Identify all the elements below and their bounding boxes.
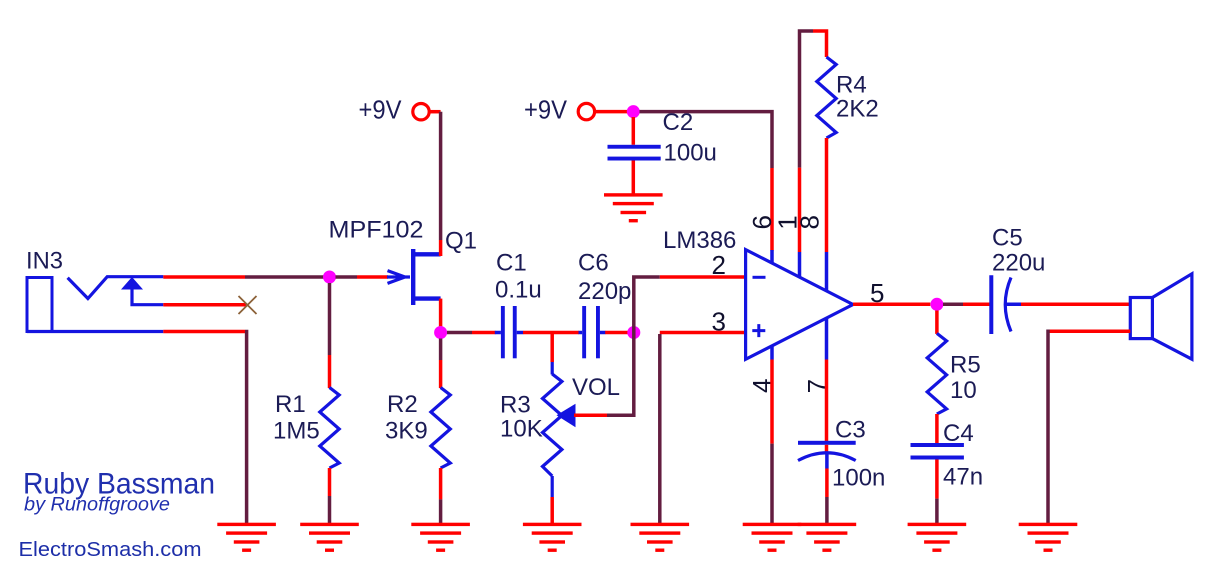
capacitor C5 curved plate xyxy=(1005,278,1011,332)
svg-text:R4: R4 xyxy=(836,71,867,98)
wire C1 in dark xyxy=(447,331,472,335)
wire C4 bottom red xyxy=(935,460,939,499)
svg-text:R1: R1 xyxy=(275,391,306,418)
potentiometer R3 body xyxy=(543,374,562,476)
wire pin4 red xyxy=(770,360,774,444)
svg-text:R2: R2 xyxy=(387,391,418,418)
wire R3 tap red xyxy=(550,333,554,363)
node junction dot B xyxy=(434,326,447,339)
svg-text:C4: C4 xyxy=(943,420,974,447)
jack sleeve lead xyxy=(27,330,163,333)
wire pin6 red xyxy=(770,168,774,251)
wire 9v1 stub red xyxy=(429,110,441,114)
svg-text:C6: C6 xyxy=(578,250,609,277)
pin stub 7 xyxy=(825,318,829,359)
pin stub 8 xyxy=(825,252,829,291)
speaker LS1 body xyxy=(1130,298,1152,339)
wire C2 top red xyxy=(632,117,636,145)
ground C2 xyxy=(604,193,663,222)
wire C1-C6 red xyxy=(523,331,579,335)
svg-text:C1: C1 xyxy=(496,250,527,277)
svg-text:100u: 100u xyxy=(664,140,717,167)
capacitor C1 xyxy=(495,306,523,358)
wire R3 bottom red xyxy=(550,497,554,525)
wire C2 bottom red xyxy=(632,161,636,196)
resistor R4 xyxy=(817,57,836,138)
jack switch arrow xyxy=(121,277,143,290)
speaker LS1 horn xyxy=(1152,274,1192,359)
wire tip dark xyxy=(245,275,324,279)
capacitor C3 blue lead xyxy=(825,452,829,469)
op-amp plus sign xyxy=(752,324,765,337)
ground pin3 xyxy=(631,523,690,552)
wire speaker return dark xyxy=(1048,331,1050,524)
capacitor C2 xyxy=(608,145,661,161)
svg-text:220p: 220p xyxy=(578,278,631,305)
node junction dot D xyxy=(627,105,640,118)
wire output red to C5 xyxy=(963,303,991,307)
wire gate dark xyxy=(336,275,358,279)
wire tip red xyxy=(163,275,245,279)
svg-text:VOL: VOL xyxy=(572,374,620,401)
ground speaker xyxy=(1019,523,1078,552)
svg-text:MPF102: MPF102 xyxy=(329,217,424,244)
wire pin1 red xyxy=(798,168,802,252)
svg-text:10: 10 xyxy=(950,377,977,404)
op-amp minus sign xyxy=(753,276,766,279)
wire C1 in red xyxy=(472,331,496,335)
wire R5-C4 red xyxy=(935,414,939,443)
svg-text:1M5: 1M5 xyxy=(273,418,320,445)
resistor R1 xyxy=(320,388,339,469)
svg-text:C2: C2 xyxy=(663,109,694,136)
svg-text:3: 3 xyxy=(712,307,726,337)
potentiometer R3 bottom lead xyxy=(551,476,554,497)
wire R2 dark xyxy=(439,339,443,361)
wire wiper dark xyxy=(607,333,634,416)
svg-text:100n: 100n xyxy=(832,464,885,491)
wire 9v2 stub red xyxy=(594,110,628,114)
svg-text:C5: C5 xyxy=(992,224,1023,251)
resistor R5 xyxy=(927,333,946,414)
wire R4 bottom red pin8 xyxy=(825,138,829,252)
svg-text:10K: 10K xyxy=(500,416,543,443)
capacitor C3 top plate xyxy=(798,441,856,445)
wire C6 out red xyxy=(605,331,627,335)
svg-text:C3: C3 xyxy=(835,417,866,444)
wire C4 bottom dark xyxy=(935,499,939,525)
wire R5 top red xyxy=(935,311,939,334)
wire to pin2 dark xyxy=(634,277,660,333)
wire pin7 red xyxy=(825,360,829,444)
capacitor C3 red gap xyxy=(825,445,829,452)
svg-text:IN3: IN3 xyxy=(26,248,63,275)
wire pin2 red xyxy=(660,275,746,279)
wire C3 dark xyxy=(825,497,829,525)
pin stub 6 xyxy=(770,250,774,264)
wire R2 red xyxy=(439,360,443,388)
wire C3 red xyxy=(825,469,829,498)
svg-text:47n: 47n xyxy=(943,463,983,490)
potentiometer R3 wiper arrow xyxy=(557,404,576,428)
no-connect X xyxy=(239,296,257,314)
capacitor C3 curved plate xyxy=(798,453,856,461)
capacitor C4 xyxy=(911,443,964,460)
wire ring red xyxy=(163,303,246,307)
svg-text:3K9: 3K9 xyxy=(385,418,428,445)
transistor Q1 gate arrow xyxy=(387,271,410,284)
ground pin7 C3 xyxy=(798,523,857,552)
jack IN3 tip spring contact xyxy=(68,277,164,299)
transistor Q1 MPF102 xyxy=(413,249,440,305)
wire pin4 dark xyxy=(770,444,774,525)
svg-text:+9V: +9V xyxy=(359,94,403,124)
wire sleeve dark down xyxy=(245,332,247,525)
capacitor C6 xyxy=(579,306,606,358)
input jack IN3 body xyxy=(27,278,52,332)
svg-text:2: 2 xyxy=(712,250,726,280)
wire R2 bottom dark xyxy=(439,499,443,524)
wire pin1 dark xyxy=(800,31,814,168)
supply terminal circle no.2 xyxy=(578,103,594,119)
wire speaker return red xyxy=(1049,330,1130,334)
svg-text:Q1: Q1 xyxy=(445,228,477,255)
wire output dark xyxy=(943,303,963,307)
wire R2 bottom red xyxy=(439,468,443,499)
capacitor C5 straight plate xyxy=(989,275,993,334)
ground pin4 xyxy=(743,523,802,552)
op-amp U1 LM386 xyxy=(746,250,853,360)
resistor R2 xyxy=(431,388,450,469)
wire gate red xyxy=(357,275,388,279)
wire R4 top red xyxy=(813,31,827,57)
node junction dot A xyxy=(323,271,336,284)
wire drain red xyxy=(439,240,443,256)
wire output pin5 red xyxy=(853,303,930,307)
wire R1 bottom dark xyxy=(328,496,332,525)
svg-text:+9V: +9V xyxy=(524,94,568,124)
wire 9v2 to pin6 dark xyxy=(640,112,773,168)
wire drain dark xyxy=(439,112,443,240)
svg-text:R3: R3 xyxy=(500,391,531,418)
svg-text:0.1u: 0.1u xyxy=(495,277,542,304)
supply terminal circle no.1 xyxy=(413,104,429,120)
ground C4 xyxy=(908,523,967,552)
ground R3 xyxy=(523,523,582,552)
wire pin3 ground dark xyxy=(658,334,662,525)
wire R1 dark xyxy=(328,283,332,355)
wire source red xyxy=(439,299,443,327)
wire R1 red xyxy=(328,355,332,388)
wire R1 bottom red xyxy=(328,468,332,496)
svg-text:2K2: 2K2 xyxy=(836,95,879,122)
wire pin3 red xyxy=(660,331,746,335)
svg-text:ElectroSmash.com: ElectroSmash.com xyxy=(19,539,202,561)
svg-text:by Runoffgroove: by Runoffgroove xyxy=(24,495,170,516)
svg-text:R5: R5 xyxy=(950,352,981,379)
pin stub 4 xyxy=(770,346,774,360)
svg-text:8: 8 xyxy=(795,215,825,229)
capacitor C5 blue stub xyxy=(1004,303,1021,307)
wire C5 to speaker red xyxy=(1021,303,1131,307)
ground R2 xyxy=(411,523,470,552)
svg-text:220u: 220u xyxy=(992,250,1045,277)
wire wiper red xyxy=(574,414,607,418)
wire sleeve red xyxy=(163,330,245,334)
pin stub 1 xyxy=(798,252,802,277)
ground jack xyxy=(217,523,276,552)
node junction dot E xyxy=(930,298,943,311)
node junction dot C xyxy=(627,326,640,339)
jack switch lead xyxy=(132,289,163,304)
potentiometer R3 top lead xyxy=(551,362,554,375)
ground R1 xyxy=(300,523,359,552)
